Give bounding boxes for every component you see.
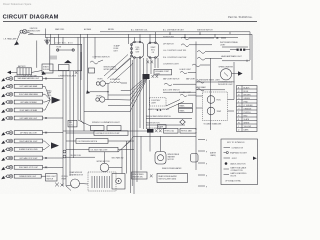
right mid squiggles [197,81,204,91]
wire bottom link [80,183,89,186]
ignition coil box [68,120,77,127]
right aux switch squiggles [180,72,196,97]
wire right edge drop [251,34,253,62]
right mid row 2 [196,86,225,90]
wire top bus B [45,36,238,38]
lamp row 3: right hand main beam [1,92,50,100]
armature box beside wiper assembly [112,174,125,190]
wire switch column left edge [149,80,151,129]
right switch row 1 horn push [163,37,226,40]
lamp row 4: left hand dip beam [1,100,50,105]
cable colour code table [237,86,258,132]
wire top bus A [28,33,252,35]
lamp row 2: left hand main beam [1,84,50,99]
wire diagonal to fuse [112,58,131,75]
wire wiper to right bus [109,167,122,169]
wires into lower blob [63,131,147,194]
wire battery to solenoid [32,71,43,73]
top bus tiny labels [55,28,114,31]
wire bottom diagonals to lower blob [118,138,133,153]
ground arrow left of L1 [14,33,20,45]
right switch row 5 flasher switch [163,64,210,67]
oil pressure switch row [66,139,134,144]
lamp row 1: main beam warning light [1,77,63,82]
control box outline [50,42,82,70]
wire feeds instrument cluster [196,96,234,111]
petrol gauge label boxes right of blob [164,128,197,133]
harness verticals below upper blob [144,79,147,129]
petrol pump [62,176,80,190]
left bus branch 8 [80,34,82,120]
harness junction blob upper [143,74,150,79]
windscreen washer motor [155,152,180,165]
starter motor [147,32,158,59]
wire right edge extend [251,62,253,80]
in-line connectors on left bus [63,150,66,158]
fuse holder feed [128,34,130,44]
horn 1 [96,79,109,87]
horn relay resistor [110,78,128,83]
left vertical bus 2 [65,71,67,187]
in-line fuse row [66,155,95,157]
rear window heater motor label [70,171,84,176]
key to symbols box [221,139,258,185]
fuse label [114,45,121,53]
header rule [3,20,257,22]
instrument cluster dashed box [203,92,228,126]
battery earth arrow [7,71,17,75]
wire charge lead [36,41,38,68]
aux switch row centre [163,89,196,93]
overdrive relay small box [191,154,199,163]
centre-right panel boxes [179,104,193,113]
left vertical bus 3 [69,71,71,177]
instrument label underline [222,46,248,48]
solenoid earth arrow [42,71,47,75]
wiper motor [97,152,111,172]
right mid row: oil pressure warning [196,78,232,82]
panel illumination light label [91,121,122,130]
left vertical bus 4 [73,71,75,159]
left bus branch 7 [77,37,79,120]
junction triangle above control box [45,40,51,45]
lamp row 12: number plate light [1,174,46,179]
horn earth arrow [86,90,108,94]
snap connectors left of heater switch [150,175,153,178]
washer switch box [132,172,148,179]
reverse light switch box [46,174,58,181]
wire right edge drop 2 [249,32,251,60]
lamp row 5: right hand dip beam [1,100,50,113]
lamp row 10: left hand stop light [1,156,63,161]
regulator contact triangle [64,60,72,63]
svg-text:BROWN: BROWN [108,29,114,31]
rear screen heater switch box [157,174,188,183]
luggage comp light box [154,69,172,75]
harness vertical extra 2 [131,60,133,186]
right switch row 4 panel light switch [163,57,222,60]
regulator coil marks [50,56,69,71]
right edge vertical mid [210,58,212,130]
headlamp plug arrow [52,97,61,104]
wire bend into illumination boxes [78,120,91,126]
speedo illumination label [218,82,235,86]
side tail light row [66,147,134,151]
lighting switch [90,57,110,65]
bottom centre bus [133,132,196,170]
snap connector x marks near blob [152,75,159,78]
left vertical bus 5 [83,37,85,131]
wire top bus C [100,31,250,33]
wire right verticals near wiper [122,141,126,174]
right switch row 3 courtesy light switch [163,50,230,53]
dynamo [131,34,144,58]
scan noise overlay [0,0,1,1]
wire lighting drop [94,37,96,59]
extra harness diagonals upper [104,55,133,81]
top center labels [131,29,213,32]
lamp row 6: left hand side light [1,116,63,121]
wire diagonals centre-right [166,100,184,110]
speedometer [219,67,239,80]
right verticals to table [196,42,234,131]
map light wire [183,83,196,85]
bus junction ticks [169,32,230,38]
flasher unit small box [158,125,167,129]
snap connectors near lower blob [155,129,162,132]
left vertical bus 1 [62,71,64,187]
right switch row 2 dip switch [163,43,212,46]
starter snap connectors [147,61,154,64]
courtesy light dashed box [150,98,167,106]
panel light connector dots [230,49,250,51]
control box snap marks [75,71,77,74]
lamp row 9: number plate illumin. [1,146,49,153]
speedometer arrow [238,71,243,76]
wiper motor assembly dashed box [88,172,116,191]
distributor row box [66,131,128,136]
lighting switch area vertical [80,52,82,80]
aux light labels right [179,68,191,94]
tail plug arrow [51,142,59,148]
ignition warning light L1 [20,28,46,37]
starter solenoid [42,64,53,73]
left vertical bus 6 [87,34,89,93]
horn junction vertical [107,84,108,100]
stray earth leads right of centre [198,140,217,189]
centre-right rows text [146,116,192,130]
wiper switch label [89,67,118,74]
wires from lower blob to washer motor [150,133,161,152]
connector diamond [180,120,186,125]
wire control box feeds [47,34,63,44]
snap connectors bottom left [55,183,64,187]
harness vertical extra 1 [130,58,132,193]
wire fan from harness to left rows [84,79,147,112]
fuse inside control box [57,47,75,52]
lamp row 11: right hand stop light [1,165,63,170]
centre-right switch squiggle A [164,83,183,85]
centre-right mid labels row A [163,77,195,80]
battery [15,65,37,78]
headlamp plug label [47,90,52,97]
lamp row 7: left hand tail light [1,131,63,136]
instrument panel light label [220,41,238,47]
courtesy dots [157,109,162,111]
horn 2 [96,95,108,102]
lamp row 8: right hand tail light [1,139,49,146]
headlamp main beam light label [221,55,250,62]
harness junction blob lower [147,129,154,133]
harness verticals center [134,58,158,131]
